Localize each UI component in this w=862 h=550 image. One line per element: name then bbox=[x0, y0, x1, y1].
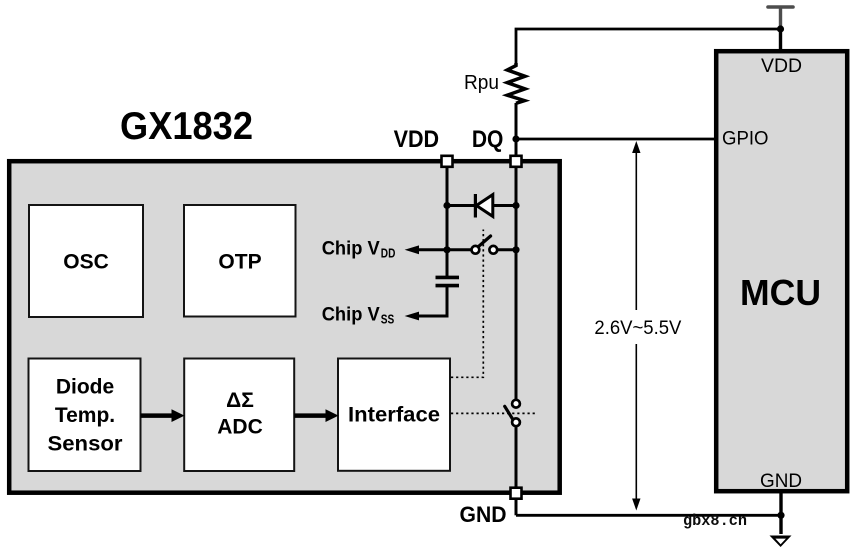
MCU block bbox=[716, 51, 847, 492]
switch S2 bbox=[505, 400, 520, 426]
block Interface bbox=[338, 359, 450, 471]
Chip VDD arrow bbox=[405, 245, 447, 254]
svg-text:GPIO: GPIO bbox=[722, 129, 769, 150]
node bottom rail junction bbox=[777, 512, 784, 519]
wire bottom GND rail bbox=[516, 514, 781, 517]
voltage range arrow 2.6V~5.5V bbox=[591, 141, 683, 511]
Chip VSS arrow bbox=[405, 286, 447, 321]
node S1 right junction bbox=[512, 246, 519, 253]
power symbol VDD (T-bar) bbox=[768, 7, 793, 27]
pin DQ square bbox=[511, 156, 522, 167]
svg-text:DD: DD bbox=[381, 246, 396, 261]
resistor Rpu bbox=[464, 63, 525, 103]
ground symbol bbox=[770, 536, 792, 548]
svg-text:gbx8.cn: gbx8.cn bbox=[683, 512, 747, 530]
svg-text:Interface: Interface bbox=[348, 404, 440, 427]
wire Rpu bottom to DQ node bbox=[515, 103, 518, 139]
wire DQ vertical below switch S2 bbox=[515, 426, 518, 493]
svg-text:SS: SS bbox=[381, 312, 395, 327]
svg-text:Temp.: Temp. bbox=[55, 404, 115, 427]
dotted control line 2 (interface to S2) bbox=[451, 412, 535, 414]
arrow ADC to interface bbox=[294, 409, 338, 422]
svg-text:ΔΣ: ΔΣ bbox=[226, 389, 254, 412]
svg-text:OSC: OSC bbox=[63, 251, 109, 274]
wire power node to MCU VDD pin bbox=[779, 27, 782, 51]
label Chip VDD bbox=[322, 239, 396, 261]
wire VDD pin vertical into chip bbox=[446, 161, 449, 277]
wire VDD rail top (Rpu top to power node) bbox=[516, 29, 781, 64]
pin GND square bbox=[511, 488, 522, 499]
svg-text:VDD: VDD bbox=[761, 56, 802, 77]
wire GND pin down to bottom rail bbox=[515, 499, 518, 516]
svg-text:Chip V: Chip V bbox=[322, 239, 380, 260]
svg-text:GND: GND bbox=[460, 502, 507, 527]
svg-text:Chip V: Chip V bbox=[322, 305, 380, 326]
block Diode Temp. Sensor bbox=[29, 359, 141, 472]
svg-text:Rpu: Rpu bbox=[464, 72, 499, 94]
svg-text:DQ: DQ bbox=[472, 126, 504, 153]
svg-text:GND: GND bbox=[760, 471, 802, 492]
node Chip VDD junction bbox=[443, 246, 450, 253]
wire MCU GND stem bbox=[779, 493, 782, 534]
svg-text:Sensor: Sensor bbox=[48, 432, 123, 455]
wire DQ vertical into chip bbox=[515, 139, 518, 400]
capacitor (chip decoupling) bbox=[436, 277, 460, 285]
block delta-sigma ADC bbox=[184, 359, 294, 472]
node power junction bbox=[777, 25, 784, 32]
svg-text:Diode: Diode bbox=[56, 376, 114, 399]
block OTP bbox=[184, 205, 296, 317]
wire DQ node to MCU GPIO bbox=[516, 138, 716, 141]
switch S1 bbox=[447, 236, 516, 254]
svg-text:ADC: ADC bbox=[217, 416, 263, 439]
diode D1 bbox=[447, 194, 516, 218]
node diode cathode junction bbox=[443, 202, 450, 209]
node diode anode junction bbox=[512, 202, 519, 209]
svg-text:MCU: MCU bbox=[740, 272, 821, 313]
GX1832 chip block bbox=[9, 161, 560, 493]
block OSC bbox=[29, 205, 143, 317]
label Chip VSS bbox=[322, 305, 395, 327]
dotted control line 1 (interface to S1) bbox=[451, 230, 483, 378]
svg-text:GX1832: GX1832 bbox=[120, 105, 253, 148]
svg-text:VDD: VDD bbox=[394, 126, 440, 153]
pin VDD square bbox=[442, 156, 453, 167]
svg-text:OTP: OTP bbox=[218, 251, 261, 274]
arrow sensor to ADC bbox=[141, 409, 185, 422]
node DQ junction bbox=[512, 135, 519, 142]
svg-text:2.6V~5.5V: 2.6V~5.5V bbox=[594, 318, 681, 339]
